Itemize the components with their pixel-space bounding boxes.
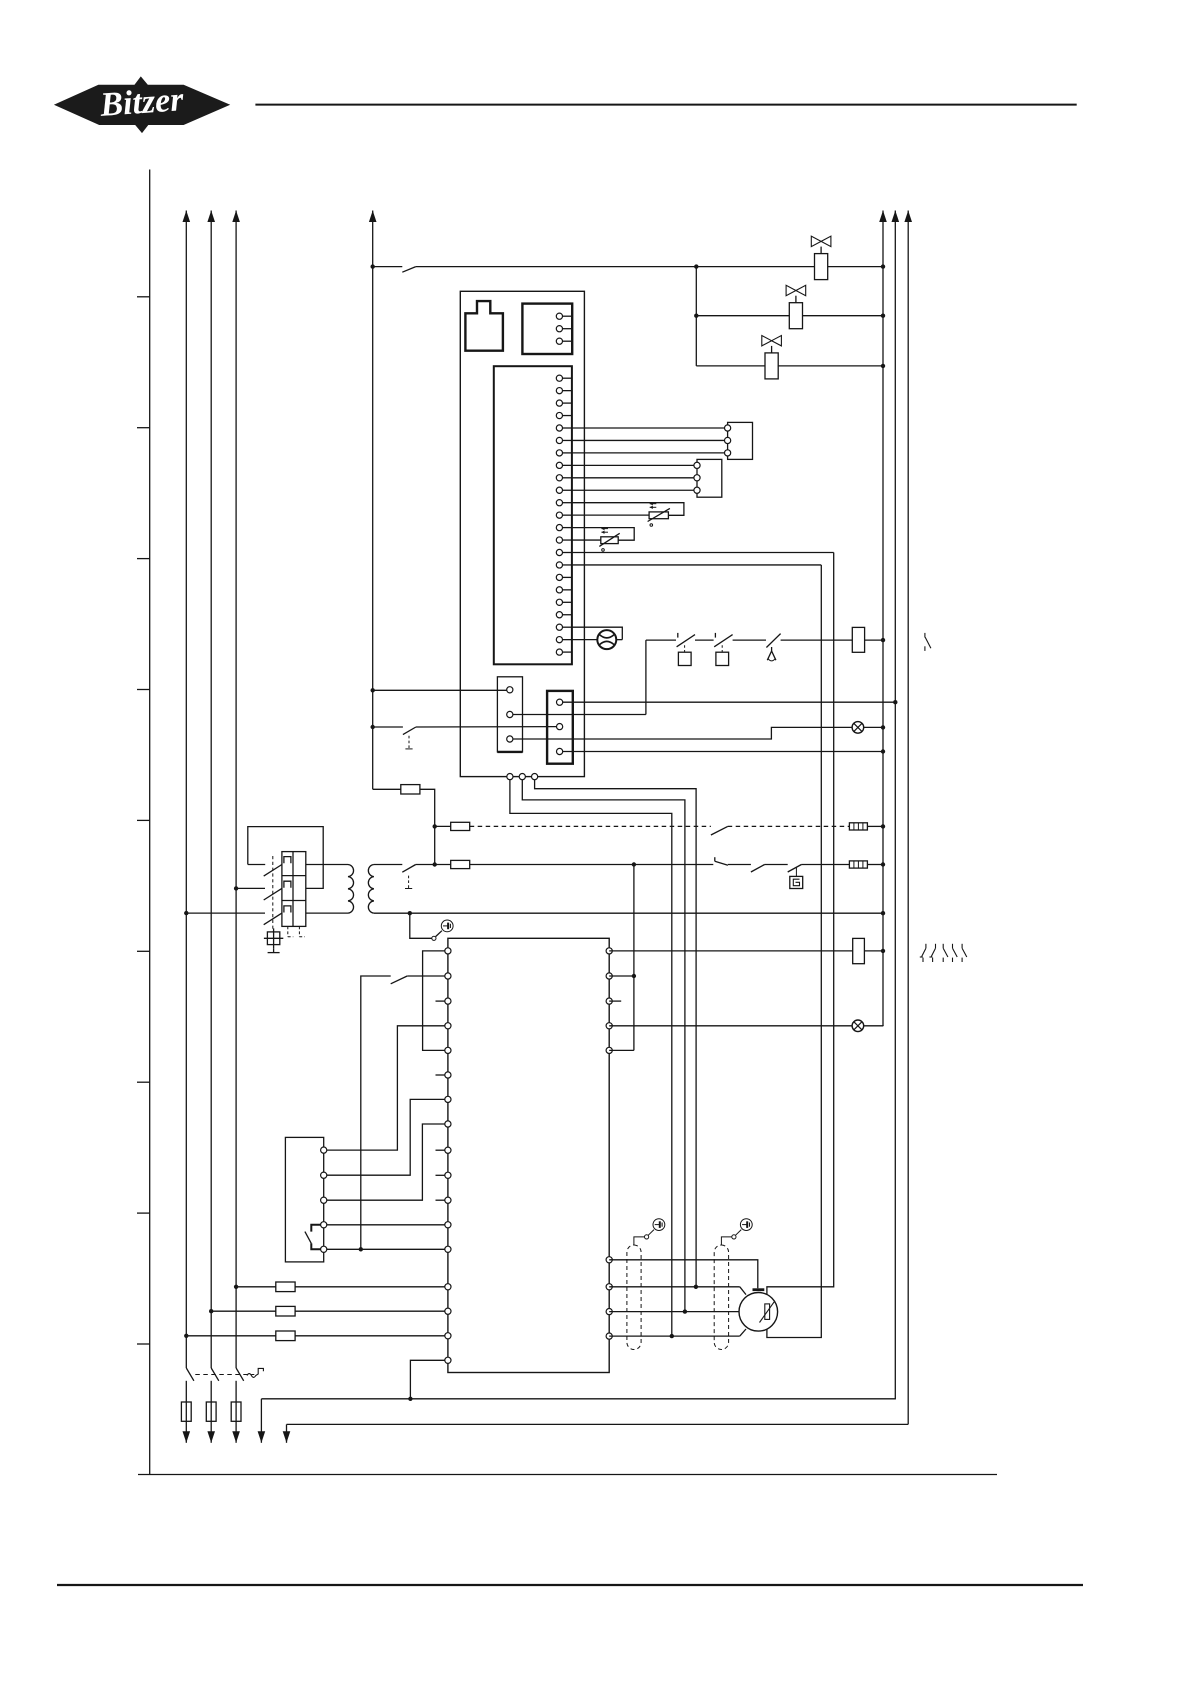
phase line L3 bbox=[235, 211, 237, 1369]
wire: r7 to motor bbox=[609, 1286, 740, 1288]
terminal X2:4 bbox=[556, 412, 562, 418]
wire: t7 to aux box pin2 bbox=[327, 1099, 445, 1175]
A pin 2 bbox=[725, 437, 731, 443]
terminal X2:12 bbox=[556, 512, 562, 518]
wire: loop to contactor row1 bbox=[248, 864, 265, 866]
plug connector X0 bbox=[465, 301, 503, 351]
control fuse row 3 bbox=[184, 1334, 188, 1338]
oil sump heater E2 bbox=[849, 861, 867, 868]
wire: contactor row1 to transformer primary bbox=[306, 864, 348, 866]
terminal strip box X2 bbox=[494, 366, 572, 664]
wire: bottom return to bus3 bbox=[287, 1423, 909, 1425]
terminal X2:22 bbox=[556, 637, 562, 643]
terminal X2:17 bbox=[556, 574, 562, 580]
bus line 2 bbox=[894, 211, 896, 1399]
terminal X2:19 bbox=[556, 599, 562, 605]
box terminal left 16 bbox=[445, 1333, 451, 1339]
BITZER logo bbox=[54, 76, 230, 133]
phase line L1 bbox=[185, 211, 187, 1369]
overload element bbox=[284, 906, 291, 913]
junction on L3 bbox=[234, 886, 238, 890]
aux pin 5 bbox=[321, 1246, 327, 1252]
B pin 1 bbox=[694, 462, 700, 468]
terminal X2:20 bbox=[556, 612, 562, 618]
trip cross symbol bbox=[267, 932, 279, 945]
manual actuator zigzag bbox=[247, 1368, 263, 1377]
internal contact bbox=[311, 1225, 320, 1232]
wire: S1 to K3 pin2 bbox=[416, 726, 557, 728]
wire: supply to K2 pin1 bbox=[373, 689, 507, 691]
flow indicator F bbox=[572, 627, 622, 639]
cable shield 1 bbox=[627, 1245, 641, 1350]
wire: K2 pin3 to lamp H1 bbox=[513, 727, 852, 739]
B pin 3 bbox=[694, 487, 700, 493]
wire: X2:16 motor sensor - bbox=[572, 564, 821, 566]
motor M1 bbox=[739, 1293, 778, 1332]
thermistor chain bar bbox=[753, 1288, 765, 1291]
box terminal left 6 bbox=[445, 1072, 451, 1078]
fuse F1.1 bbox=[181, 1402, 191, 1421]
wire: bottom return to bus2 bbox=[261, 1398, 896, 1400]
wire: valve feed row 3 bbox=[696, 365, 765, 367]
connector block X1 bbox=[522, 304, 572, 354]
header rule bbox=[255, 104, 1076, 106]
wire: r6 to thermistor chain top bbox=[609, 1260, 758, 1289]
relay coil K4 bbox=[853, 938, 865, 963]
terminal X2:10 bbox=[556, 487, 562, 493]
wire: module pin3 to motor contact riser bbox=[535, 780, 697, 1287]
signal lamp H2 bbox=[852, 1020, 864, 1032]
box terminal left 9 bbox=[445, 1147, 451, 1153]
box terminal left 10 bbox=[445, 1172, 451, 1178]
control supply line bbox=[372, 211, 374, 790]
wire: contactor row3 to transformer primary bbox=[306, 912, 348, 914]
A pin 3 bbox=[725, 450, 731, 456]
aux pin 1 bbox=[321, 1147, 327, 1153]
box terminal right 2 bbox=[606, 973, 612, 979]
box terminal left 13 bbox=[445, 1246, 451, 1252]
terminal X2:3 bbox=[556, 400, 562, 406]
wire: X2:15 motor sensor + bbox=[572, 552, 834, 554]
contact K2 aux bbox=[751, 865, 765, 873]
overload element bbox=[284, 881, 291, 888]
terminal X2:1 bbox=[556, 375, 562, 381]
box terminal left 2 bbox=[445, 973, 451, 979]
LP pressure switch F5 bbox=[714, 635, 732, 647]
wire: secondary top bbox=[374, 864, 402, 866]
control switch S1 bbox=[373, 726, 403, 728]
connector B (pressure sensor plug) bbox=[697, 459, 722, 497]
contactor coil block K3 bbox=[547, 691, 573, 764]
terminal X2:6 bbox=[556, 437, 562, 443]
wire: loop left t1-t5 bbox=[423, 951, 445, 1051]
box terminal left 4 bbox=[445, 1023, 451, 1029]
wire: K2 pin2 to safety chain bbox=[513, 714, 646, 716]
main switch S2 contact bbox=[402, 865, 415, 873]
wire: K3 pin3 to bus1 bbox=[563, 751, 883, 753]
terminal X2:23 bbox=[556, 649, 562, 655]
motor sensor wire A bbox=[767, 553, 834, 1304]
wire: t8 to aux box pin3 bbox=[327, 1124, 445, 1200]
wire: X2:9 to B2 bbox=[572, 477, 694, 479]
disconnect switch blade Q1.2 bbox=[211, 1368, 219, 1381]
shield 2 earth connection bbox=[721, 1237, 731, 1245]
box terminal left 1 bbox=[445, 948, 451, 954]
stub r3 bbox=[609, 1000, 621, 1002]
wire: X2:5 to A1 bbox=[572, 427, 725, 429]
wire: t4 to aux box pin1 bbox=[327, 1026, 445, 1150]
B pin 2 bbox=[694, 475, 700, 481]
X1 pin 2 bbox=[556, 326, 562, 332]
box terminal right 7 bbox=[606, 1284, 612, 1290]
motor PTC sensor bbox=[765, 1304, 770, 1320]
release contact with fork bbox=[766, 634, 780, 648]
bus line 1 (N) bbox=[882, 211, 884, 1027]
wire+contact: t2 to riser bbox=[407, 975, 445, 977]
contactor blade bbox=[264, 865, 282, 877]
wire: module pin2 to motor contact riser bbox=[522, 780, 685, 1312]
box terminal right 8 bbox=[606, 1309, 612, 1315]
wire: secondary bottom to bus1 bbox=[374, 912, 883, 914]
wire: X2:6 to A2 bbox=[572, 439, 725, 441]
terminal X2:16 bbox=[556, 562, 562, 568]
fuse F3 (crankcase heater circuit, dashed) bbox=[435, 825, 451, 827]
wire: r9 to motor bbox=[609, 1335, 740, 1337]
wire: valve feed row 1 bbox=[373, 266, 403, 268]
junction on L1 bbox=[184, 911, 188, 915]
contactor blade bbox=[264, 913, 282, 925]
A pin 1 bbox=[725, 425, 731, 431]
switch linkage dashed bbox=[195, 1374, 254, 1376]
contact K1 aux bbox=[711, 826, 728, 835]
wire: K3 pin1 to bus2 bbox=[563, 701, 896, 703]
box terminal left 11 bbox=[445, 1197, 451, 1203]
X1 pin 3 bbox=[556, 338, 562, 344]
contactor / overload block Q2 bbox=[282, 852, 306, 927]
functional earth (shield 1) bbox=[653, 1219, 665, 1231]
wire: X2:7 to A3 bbox=[572, 452, 725, 454]
wire: t17 to bottom return bbox=[410, 1360, 444, 1399]
solenoid valve Y3 bbox=[765, 353, 778, 379]
diagram bottom border bbox=[138, 1474, 997, 1476]
terminal X2:7 bbox=[556, 450, 562, 456]
cable shield 2 bbox=[714, 1245, 728, 1350]
disconnect switch blade Q1.3 bbox=[236, 1368, 244, 1381]
linkage dashed bbox=[272, 856, 274, 932]
stub terminals bbox=[436, 1000, 445, 1002]
terminal X2:13 bbox=[556, 525, 562, 531]
K1 contact reference glyph bbox=[924, 633, 926, 638]
wire: valve feed row 2 bbox=[696, 315, 789, 317]
functional earth (shield 2) bbox=[740, 1219, 752, 1231]
box terminal left 14 bbox=[445, 1284, 451, 1290]
module output pin 2 bbox=[519, 774, 525, 780]
control fuse row 2 bbox=[209, 1309, 213, 1313]
overload element bbox=[284, 857, 291, 864]
terminal X2:21 bbox=[556, 624, 562, 630]
wire: r8 to motor bbox=[609, 1311, 739, 1313]
box terminal left 15 bbox=[445, 1308, 451, 1314]
module output pin 1 bbox=[507, 774, 513, 780]
terminal X2:18 bbox=[556, 587, 562, 593]
control fuse row 1 bbox=[234, 1285, 238, 1289]
X1 pin 1 bbox=[556, 313, 562, 319]
wire: r2-r5 tie to heater line bbox=[609, 975, 634, 977]
bus line 3 bbox=[907, 211, 909, 1425]
dashed feet bbox=[287, 926, 289, 936]
wire: X2:8 to B1 bbox=[572, 464, 694, 466]
motor sensor wire B bbox=[767, 565, 821, 1338]
relay coil K1 bbox=[852, 627, 864, 652]
box terminal left 3 bbox=[445, 998, 451, 1004]
temperature sensor R1 (discharge) bbox=[572, 503, 684, 516]
crankcase heater E1 bbox=[849, 823, 867, 830]
wire: module pin1 to motor contact riser bbox=[510, 780, 672, 1336]
node: control feed riser (to N bus2) bbox=[260, 1399, 262, 1443]
aux pin 3 bbox=[321, 1197, 327, 1203]
box terminal right 3 bbox=[606, 998, 612, 1004]
signal lamp H1 bbox=[852, 722, 864, 734]
temperature sensor R2 bbox=[572, 528, 634, 541]
terminal X2:8 bbox=[556, 462, 562, 468]
contactor blade bbox=[264, 888, 282, 900]
fuse F2 bbox=[373, 788, 401, 790]
box terminal left 8 bbox=[445, 1121, 451, 1127]
box terminal right 4 bbox=[606, 1023, 612, 1029]
auxiliary box (oil monitor) bbox=[285, 1137, 323, 1262]
K4 contact reference glyphs bbox=[925, 944, 927, 948]
phase line L2 bbox=[210, 211, 212, 1369]
transformer T1 secondary winding bbox=[368, 865, 374, 914]
box terminal left 17 bbox=[445, 1357, 451, 1363]
wire: X2:10 to B3 bbox=[572, 489, 694, 491]
border tick marks bbox=[137, 296, 150, 298]
junction bbox=[408, 1397, 412, 1401]
wire: aux pin5 to t13 bbox=[327, 1248, 445, 1250]
terminal X2:15 bbox=[556, 549, 562, 555]
fuse F1.3 bbox=[231, 1402, 241, 1421]
relay block K2 bbox=[497, 677, 522, 752]
NC contact (oil level) bbox=[714, 857, 716, 861]
box terminal right 9 bbox=[606, 1333, 612, 1339]
HP pressure switch F4 bbox=[677, 635, 695, 647]
terminal X2:14 bbox=[556, 537, 562, 543]
functional earth symbol bbox=[441, 920, 453, 932]
switch contact bbox=[402, 267, 416, 273]
box terminal left 5 bbox=[445, 1047, 451, 1053]
wire: aux pin4 to t12 bbox=[327, 1224, 445, 1226]
control module U1 outer box bbox=[460, 291, 584, 776]
solenoid valve Y2 bbox=[789, 303, 802, 329]
diagram left border bbox=[149, 170, 151, 1475]
transformer T1 primary winding bbox=[348, 865, 354, 914]
footer rule bbox=[57, 1584, 1083, 1586]
module output pin 3 bbox=[532, 774, 538, 780]
terminal X2:5 bbox=[556, 425, 562, 431]
valve branch vertical bbox=[695, 267, 697, 366]
box terminal right 6 bbox=[606, 1257, 612, 1263]
terminal X2:11 bbox=[556, 500, 562, 506]
shield 1 earth connection bbox=[634, 1237, 645, 1245]
connector A (suction sensor plug) bbox=[728, 422, 753, 459]
pressure switch contact with device bbox=[788, 865, 802, 873]
terminal X2:9 bbox=[556, 475, 562, 481]
fuse F6 bbox=[451, 860, 470, 868]
wire: riser from K pin bbox=[645, 640, 647, 714]
wire: loop over contactor bbox=[248, 827, 323, 889]
disconnect switch blade Q1.1 bbox=[186, 1368, 194, 1381]
wire: r1 to relay coil K4 bbox=[609, 950, 853, 952]
compressor terminal box bbox=[448, 938, 609, 1372]
box terminal right 1 bbox=[606, 948, 612, 954]
terminal X2:2 bbox=[556, 388, 562, 394]
svg-text:Bitzer: Bitzer bbox=[98, 81, 185, 124]
box terminal right 5 bbox=[606, 1047, 612, 1053]
box terminal left 7 bbox=[445, 1096, 451, 1102]
wire: r4 to lamp H2 bbox=[609, 1025, 852, 1027]
solenoid valve Y1 bbox=[815, 254, 828, 280]
earthing switch + functional earth bbox=[410, 913, 432, 938]
fuse F1.2 bbox=[206, 1402, 216, 1421]
box terminal left 12 bbox=[445, 1222, 451, 1228]
node: control feed riser (to bus3) bbox=[286, 1424, 288, 1442]
aux pin 2 bbox=[321, 1172, 327, 1178]
aux pin 4 bbox=[321, 1222, 327, 1228]
